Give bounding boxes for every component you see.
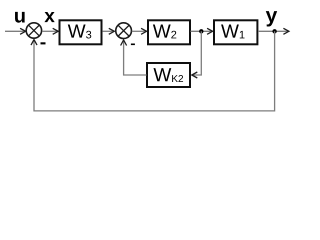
wire: summing junction 2 to W2 [132, 28, 147, 34]
junction node (dot) after W2 [199, 29, 203, 33]
wire: W2 to W1 through junction node [191, 28, 213, 34]
minus sign at summing junction 1 [41, 42, 46, 44]
wire: tap from junction node down into WK2 input [192, 31, 202, 78]
summing junction 2 (circle with X) [116, 23, 132, 39]
block W3 [60, 20, 102, 44]
block WK2 (feedback block) [147, 63, 190, 87]
node u (input label) [15, 12, 25, 23]
wire: summing junction 1 to W3 [42, 28, 58, 34]
output branch node (dot) [272, 29, 276, 33]
node x (label) [44, 12, 54, 22]
minus sign at summing junction 2 [131, 44, 135, 46]
wire: W3 to summing junction 2 [102, 28, 114, 34]
block W2 [148, 20, 190, 44]
node y (output label) [266, 11, 277, 26]
wire: outer feedback from y node down, along bottom, up into summing junction 1 [31, 31, 275, 111]
wire: W1 to output y [258, 28, 289, 34]
wire: input u into summing junction 1 [5, 28, 26, 34]
summing junction 1 (circle with X) [26, 23, 41, 38]
block W1 [214, 20, 257, 44]
wire: WK2 output left and up into summing junction 2 [121, 40, 147, 75]
